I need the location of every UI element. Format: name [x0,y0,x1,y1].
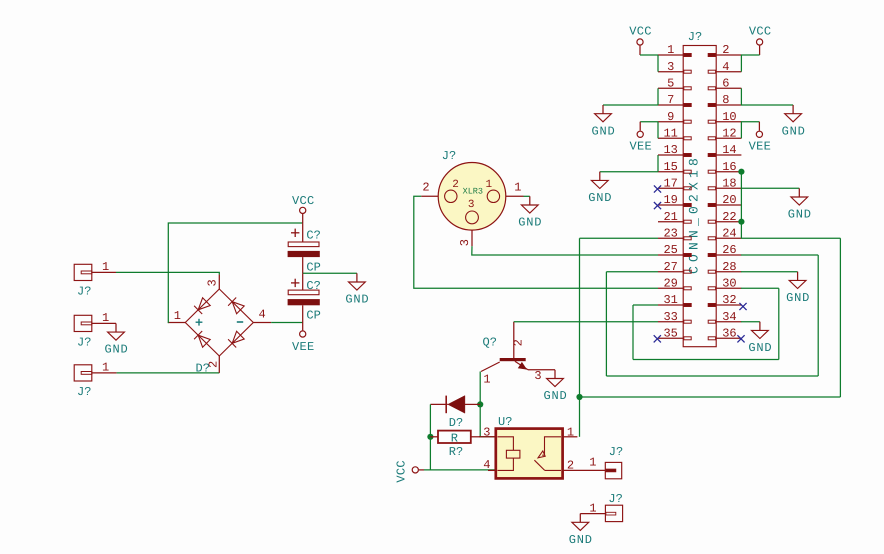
wire pin2 to pin4 [740,55,742,72]
pin 3 of J5 [658,60,691,74]
wire pin9 to VEE [640,121,658,123]
svg-text:2: 2 [512,339,526,346]
svg-text:VCC: VCC [629,25,652,39]
pin 16 of J5 [708,160,741,174]
svg-text:12: 12 [722,127,736,141]
wire pin24 right [741,237,840,239]
svg-text:20: 20 [722,193,736,207]
wire loop3 left up [632,305,634,360]
wire pin34 to GND [741,321,760,323]
svg-text:14: 14 [722,143,736,157]
svg-text:GND: GND [588,191,612,205]
pin 24 of J5 [708,227,741,241]
svg-text:VEE: VEE [292,340,315,354]
no-connect pin36 [737,335,744,342]
pin 12 of J5 [708,127,741,141]
svg-text:GND: GND [518,216,542,230]
svg-text:R?: R? [449,445,463,459]
ground (XLR pin1) [518,196,542,229]
svg-text:19: 19 [663,193,677,207]
wire D2 cathode down [429,404,431,470]
svg-text:30: 30 [722,277,736,291]
pin 21 of J5 [658,210,691,224]
power VEE (pin10) [749,122,772,154]
svg-text:GND: GND [788,208,812,222]
svg-text:25: 25 [663,243,677,257]
svg-text:J?: J? [688,30,702,44]
ground (cap midpoint) [345,273,369,306]
wire pin23 left [580,237,659,239]
svg-text:R: R [451,431,458,445]
pin 7 of J5 [658,93,691,107]
wire Q1 base down [479,372,481,437]
ground (pin34) [748,322,772,355]
connector J3 [74,361,116,399]
wire pin9 to pin11 [657,122,659,139]
pin 4 of J5 [708,60,741,74]
wire loop2 right down [817,255,819,376]
svg-text:2: 2 [722,43,729,57]
svg-text:6: 6 [722,77,729,91]
junction pin22 [738,219,744,225]
junction (relay pin1 node) [576,394,582,400]
svg-text:3: 3 [483,425,490,439]
ground (pin18) [788,188,812,221]
pin 22 of J5 [708,210,741,224]
wire J7 to GND [579,513,581,515]
wire pin31 left [633,304,658,306]
capacitor C2 [288,273,321,330]
svg-text:GND: GND [569,533,593,547]
svg-text:3: 3 [206,279,220,286]
svg-text:23: 23 [663,227,677,241]
wire pin26 right [741,254,818,256]
pin 33 of J5 [658,310,691,324]
pin 10 of J5 [708,110,741,124]
pin 13 of J5 [658,143,691,157]
svg-text:10: 10 [722,110,736,124]
svg-text:35: 35 [663,327,677,341]
resistor R1 [430,431,480,459]
svg-text:15: 15 [663,160,677,174]
wire pin28 to GND [741,271,798,273]
svg-text:1: 1 [514,181,521,195]
pin 18 of J5 [708,177,741,191]
pin 32 of J5 [708,293,741,307]
no-connect pin35 [654,335,661,342]
wire pin8 to GND [741,104,793,106]
svg-text:2: 2 [422,181,429,195]
wire pin1 to pin3 [657,55,659,72]
wire Q1 collector to pin33 [514,321,658,323]
wire XLR pin2 to J pin29 [414,196,658,288]
svg-text:9: 9 [667,110,674,124]
transistor Q1 [481,322,555,387]
power VCC (relay) [395,460,425,483]
wire bridge pin4 to VEE rail [271,322,303,324]
ground (J7) [569,514,593,547]
svg-text:J?: J? [77,285,91,299]
svg-text:D?: D? [196,362,210,376]
svg-text:26: 26 [722,243,736,257]
power VEE (capacitors) [292,331,315,354]
pin 5 of J5 [658,77,691,91]
svg-text:3: 3 [468,199,475,211]
pin 19 of J5 [658,193,691,207]
XLR connector J4 (XLR3) [421,149,523,246]
svg-text:7: 7 [667,93,674,107]
svg-text:31: 31 [663,293,677,307]
svg-text:21: 21 [663,210,677,224]
wire pin18 to GND [741,187,799,189]
pin 1 of J5 [658,43,691,57]
svg-text:CP: CP [306,308,320,322]
ground (Q1 emitter) [543,370,567,403]
svg-text:J?: J? [609,445,623,459]
ground (pins 5,7) [591,105,615,138]
wire cap midpoint to GND [303,272,357,274]
pin 9 of J5 [658,110,691,124]
no-connect pin32 [739,303,746,310]
svg-text:VEE: VEE [629,140,652,154]
power VCC (pin1) [629,25,652,55]
pin 2 of J5 [708,43,741,57]
wire loop2 bottom [606,375,818,377]
value CONN_02X18 [687,154,702,274]
wire pin6 to pin8 [740,88,742,105]
svg-text:34: 34 [722,310,736,324]
svg-text:U?: U? [498,415,512,429]
pin 20 of J5 [708,193,741,207]
svg-text:22: 22 [722,210,736,224]
svg-text:3: 3 [458,239,472,246]
pin 36 of J5 [708,327,741,341]
svg-text:4: 4 [259,308,266,322]
wire relay pin1 up [579,397,581,437]
connector J2 [74,311,116,349]
pin 35 of J5 [658,327,691,341]
label J5 refdes [688,30,702,44]
pin 11 of J5 [658,127,691,141]
ground (pins 6,8) [782,105,806,138]
pin 34 of J5 [708,310,741,324]
svg-text:J?: J? [77,336,91,350]
wire pin5 to pin7 [657,88,659,105]
pin 14 of J5 [708,143,741,157]
junction (base/diode anode) [477,401,483,407]
svg-text:VCC: VCC [395,460,409,483]
capacitor C1 [288,223,321,274]
power VEE (pin9) [629,122,652,154]
wire pin23 down [579,238,581,397]
wire pin10 to pin12 [740,122,742,139]
wire R1 right to relay pin3 [480,436,496,438]
svg-text:36: 36 [722,327,736,341]
svg-text:24: 24 [722,227,736,241]
pin 23 of J5 [658,227,691,241]
svg-text:1: 1 [483,373,490,387]
wire loop bottom [580,396,841,398]
junction (R1 left) [427,434,433,440]
svg-text:3: 3 [534,369,541,383]
ground for J2 [104,323,128,356]
bridge rectifier D1 [168,275,271,376]
pin 8 of J5 [708,93,741,107]
svg-text:3: 3 [667,60,674,74]
svg-text:1: 1 [102,311,109,325]
svg-text:1: 1 [174,309,181,323]
wire VCC to pin2 [741,54,760,56]
wire XLR pin1 to GND [524,195,530,197]
svg-text:2: 2 [452,179,459,191]
svg-text:13: 13 [663,143,677,157]
svg-text:VCC: VCC [292,194,315,208]
svg-text:J?: J? [608,492,622,506]
pin 17 of J5 [658,177,691,191]
pin 6 of J5 [708,77,741,91]
svg-text:VCC: VCC [749,25,772,39]
pin 30 of J5 [708,277,741,291]
diode D2 [430,396,480,430]
wire loop right up [839,238,841,397]
svg-text:32: 32 [722,293,736,307]
svg-text:5: 5 [667,77,674,91]
connector J1 [74,260,116,298]
svg-text:1: 1 [589,502,596,516]
pin 27 of J5 [658,260,691,274]
wire J1-1 to bridge pin3 [116,272,219,274]
pin 26 of J5 [708,243,741,257]
svg-text:16: 16 [722,160,736,174]
svg-text:1: 1 [589,455,596,469]
power VCC (capacitors) [292,194,315,224]
svg-text:J?: J? [77,385,91,399]
svg-text:C?: C? [306,229,320,243]
svg-text:1: 1 [667,43,674,57]
wire pin30 right [741,287,779,289]
wire loop3 right down [778,288,780,359]
pin 31 of J5 [658,293,691,307]
wire pin27 left [606,271,658,273]
svg-text:4: 4 [722,60,729,74]
junction pin16 [738,169,744,175]
svg-text:1: 1 [567,425,574,439]
svg-text:27: 27 [663,260,677,274]
wire VCC to pin1 [640,54,658,56]
pin 15 of J5 [658,160,691,174]
wire pin13 to pin15 [657,155,659,172]
svg-text:GND: GND [104,343,128,357]
svg-text:GND: GND [782,124,806,138]
svg-text:GND: GND [591,124,615,138]
ground (pin28) [786,272,810,305]
svg-text:VEE: VEE [749,140,772,154]
pin 28 of J5 [708,260,741,274]
wire loop3 bottom [633,359,779,361]
svg-text:2: 2 [567,459,574,473]
relay U1 [479,415,605,478]
connector J5 CONN_02X18 body [683,46,716,347]
svg-text:8: 8 [722,93,729,107]
svg-text:1: 1 [485,179,492,191]
wire pin15 to GND [600,171,658,173]
wire pin16 to pin24 [740,172,742,239]
connector J7 [580,492,623,522]
svg-text:C?: C? [306,279,320,293]
svg-text:1: 1 [102,260,109,274]
no-connect pin17 [654,185,661,192]
wire VCC to relay pin4 [424,469,496,471]
pin 29 of J5 [658,277,691,291]
svg-text:33: 33 [663,310,677,324]
svg-text:GND: GND [345,293,369,307]
ground (pins 13,15) [588,172,612,205]
power VCC (pin2) [749,25,772,55]
svg-text:Q?: Q? [483,335,497,349]
wire pin10 to VEE [741,121,759,123]
connector J6 [605,445,623,479]
wire bridge pin1 to VCC rail [168,223,303,323]
svg-text:11: 11 [663,127,677,141]
wire XLR pin3 to J pin25 [472,246,658,255]
svg-text:GND: GND [543,389,567,403]
no-connect pin19 [654,202,661,209]
svg-text:GND: GND [748,341,772,355]
svg-text:XLR3: XLR3 [463,187,483,197]
svg-text:GND: GND [786,291,810,305]
wire J3-1 to bridge pin2 [117,372,220,374]
svg-text:J?: J? [442,149,456,163]
svg-text:28: 28 [722,260,736,274]
svg-text:CP: CP [306,261,320,275]
wire pin7 to GND [603,104,658,106]
svg-text:4: 4 [483,458,490,472]
pin 25 of J5 [658,243,691,257]
svg-text:17: 17 [663,177,677,191]
svg-text:1: 1 [102,361,109,375]
wire loop2 left up [605,272,607,376]
svg-text:29: 29 [663,277,677,291]
svg-text:18: 18 [722,177,736,191]
svg-text:D?: D? [449,416,463,430]
